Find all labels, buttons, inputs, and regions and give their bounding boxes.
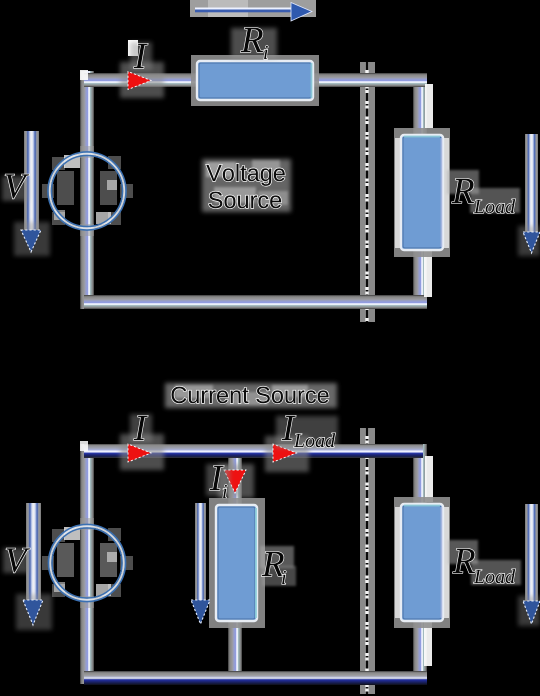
label RLoad (current circuit) xyxy=(448,540,521,585)
wire: bottom horizontal (voltage circuit) xyxy=(84,295,427,309)
resistor Ri (shunt, current circuit) xyxy=(209,498,265,628)
artifact patches (voltage circuit) xyxy=(425,84,433,128)
dashed separator line (voltage circuit) xyxy=(360,62,375,322)
current arrow I (red, current circuit) xyxy=(120,434,164,470)
load resistor RLoad (voltage circuit) xyxy=(394,128,450,257)
label ILoad (current circuit) xyxy=(276,416,338,448)
artifact patches (current circuit) xyxy=(425,456,433,502)
voltage source (circle, voltage circuit) xyxy=(42,146,133,236)
label Ri (shunt resistor) xyxy=(260,546,296,586)
wire: left vertical (voltage circuit) xyxy=(80,71,94,309)
label Ri (series resistor) xyxy=(231,28,277,59)
current arrow ILoad (red, current circuit) xyxy=(265,436,309,472)
load resistor RLoad (current circuit) xyxy=(394,497,450,628)
resistor Ri (series, voltage circuit) xyxy=(191,55,319,106)
label I (current, voltage circuit) xyxy=(128,40,152,70)
arrow (cut off at top edge) xyxy=(190,0,316,21)
load voltage arrow (far right, current circuit) xyxy=(518,504,540,626)
current arrow I (red, top wire) xyxy=(120,62,164,98)
label I (current circuit) xyxy=(130,414,152,442)
dashed separator line (current circuit) xyxy=(360,428,375,694)
label V (voltage circuit) xyxy=(2,174,29,201)
wire: top horizontal (current circuit) xyxy=(84,444,423,458)
voltage arrow V (left of source, current circuit) xyxy=(16,503,52,630)
wire: right vertical (current circuit) xyxy=(413,444,427,684)
wire: middle vertical branch (current circuit) xyxy=(228,444,242,684)
current source (circle, current circuit) xyxy=(42,518,133,608)
voltage arrow across Ri (small, blue, current circuit) xyxy=(191,503,210,624)
label: Current Source (title) xyxy=(165,383,337,408)
label Ii (current circuit) xyxy=(206,464,230,498)
current arrow Ii (red, down into Ri, current circuit) xyxy=(218,464,254,498)
label V (current circuit) xyxy=(3,548,30,573)
wire: bottom horizontal (current circuit) xyxy=(84,671,427,685)
label RLoad (voltage circuit) xyxy=(447,170,520,213)
wire: left vertical (current circuit) xyxy=(80,444,94,684)
voltage arrow V (left of source, voltage circuit) xyxy=(14,131,50,256)
label: Voltage Source xyxy=(202,159,291,212)
load voltage arrow (far right, voltage circuit) xyxy=(518,134,540,256)
wire: right vertical (voltage circuit) xyxy=(413,73,427,309)
wire: top horizontal (voltage circuit) xyxy=(84,73,427,87)
